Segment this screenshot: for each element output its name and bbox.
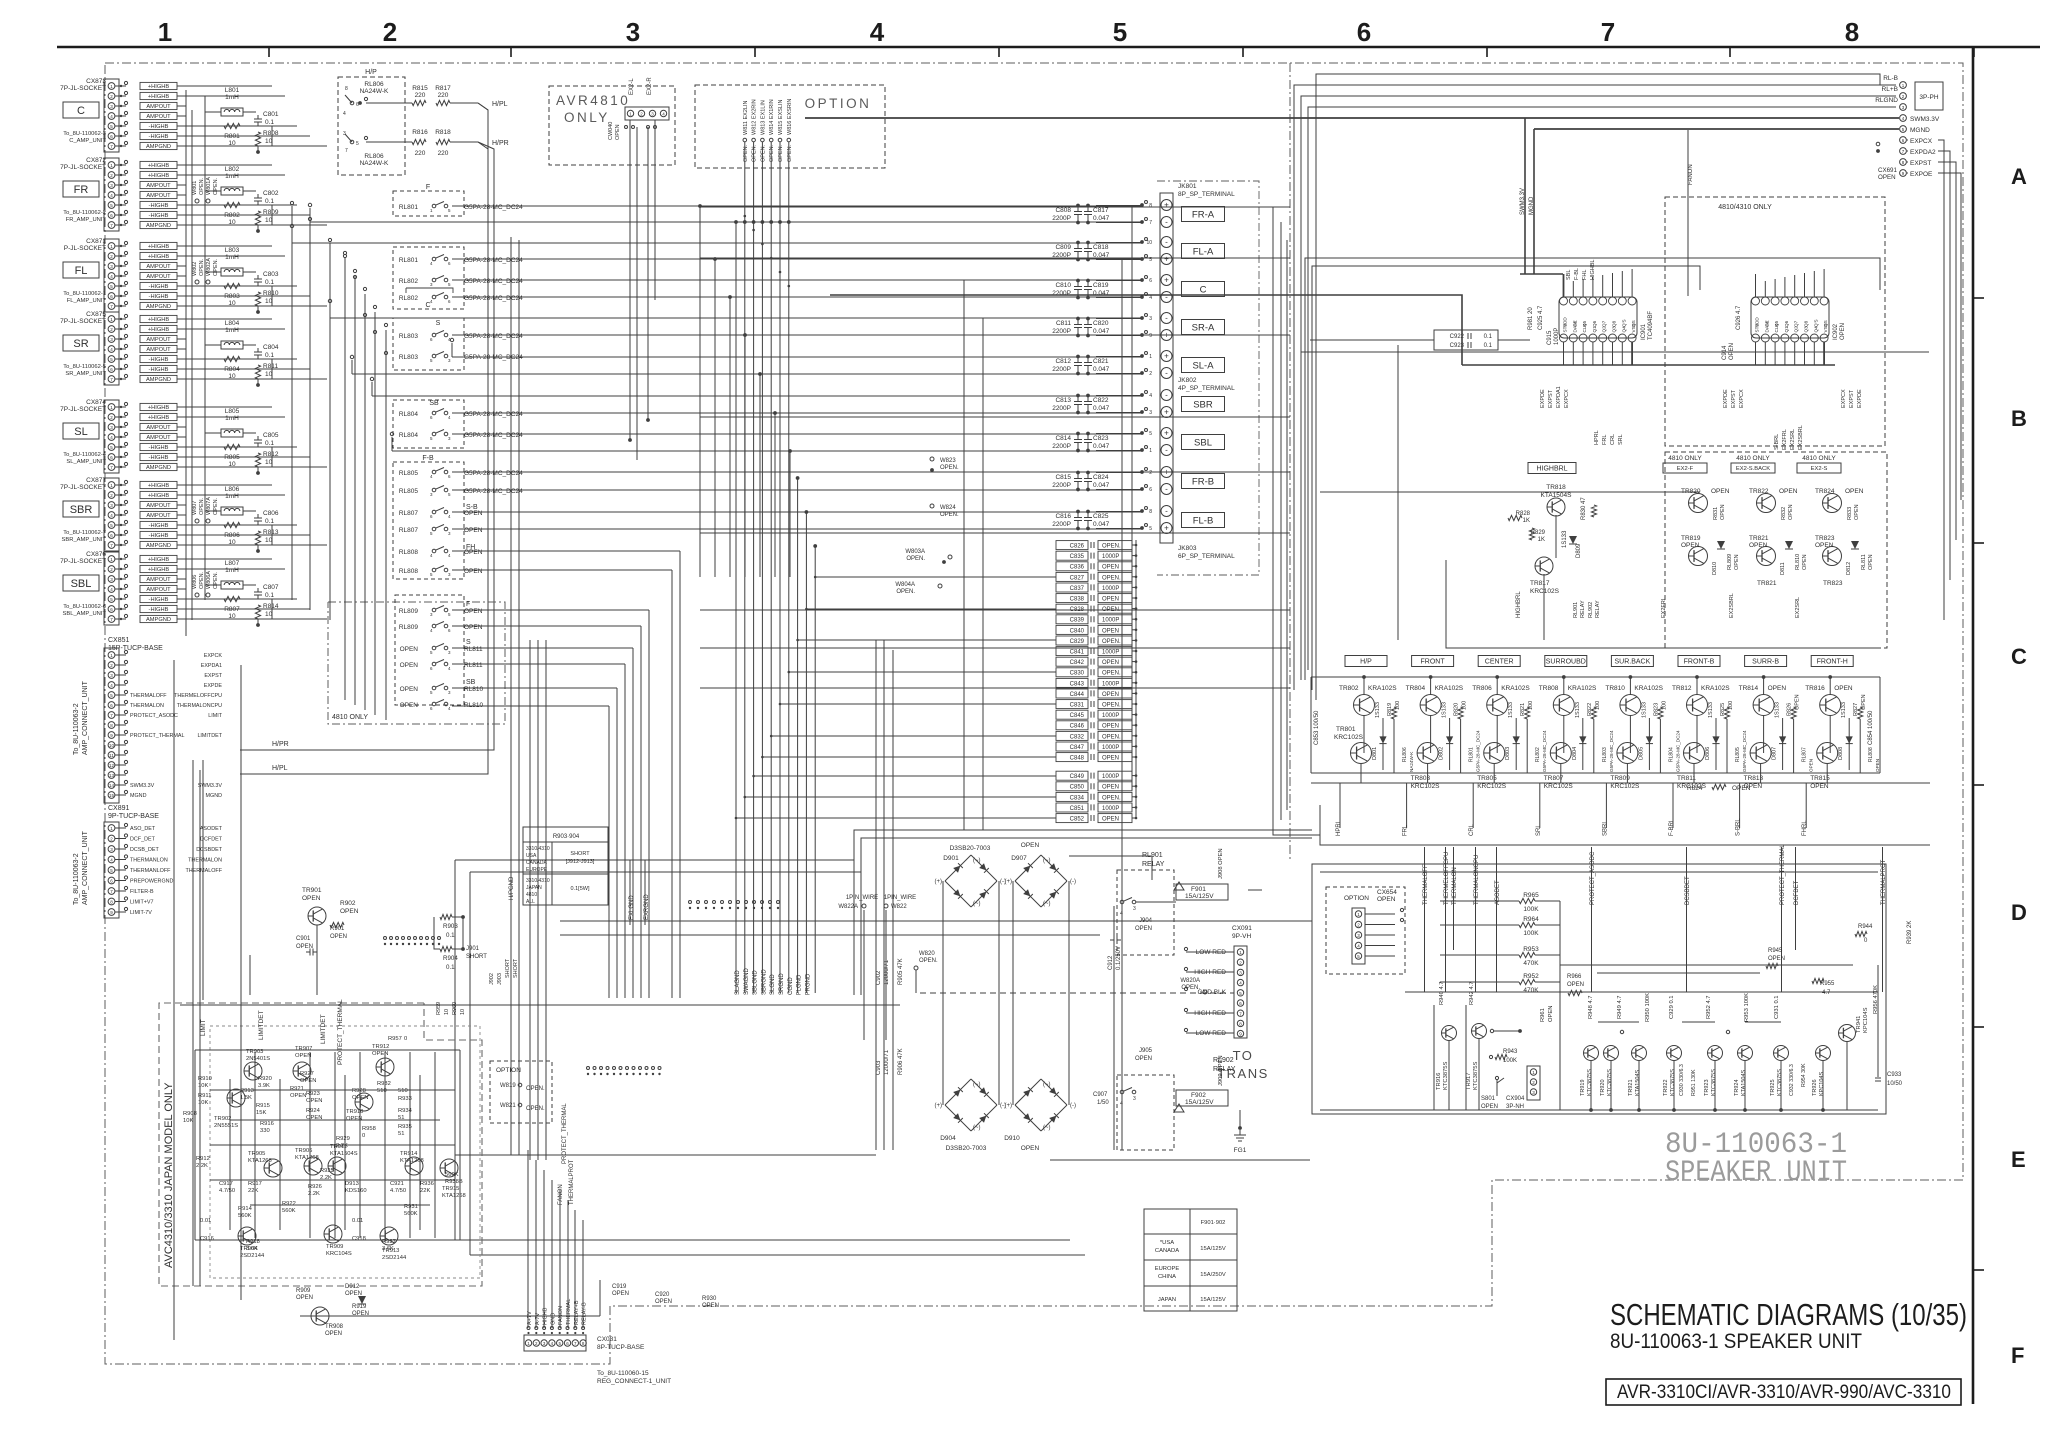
svg-text:OPEN.: OPEN. bbox=[1102, 795, 1121, 801]
svg-text:R960: R960 bbox=[452, 1002, 458, 1015]
transistor TR906 KTA1268 bbox=[304, 1157, 322, 1175]
svg-text:OPEN: OPEN bbox=[1102, 817, 1119, 823]
svg-text:AMPGND: AMPGND bbox=[146, 617, 171, 623]
svg-text:SWM3.3V: SWM3.3V bbox=[198, 783, 223, 789]
C912 label bbox=[1108, 936, 1122, 970]
svg-text:D912: D912 bbox=[345, 1284, 360, 1290]
svg-text:-HIGHB: -HIGHB bbox=[149, 367, 169, 373]
svg-text:RL802: RL802 bbox=[399, 278, 419, 285]
svg-text:OPEN: OPEN bbox=[400, 646, 419, 653]
svg-text:TR909: TR909 bbox=[326, 1244, 343, 1250]
W823 W824 open stubs bbox=[895, 457, 959, 595]
svg-text:1000P: 1000P bbox=[1102, 713, 1119, 719]
svg-text:KRC102S: KRC102S bbox=[1530, 588, 1560, 595]
svg-text:THERMALOFF: THERMALOFF bbox=[130, 693, 167, 699]
svg-text:+: + bbox=[1164, 429, 1169, 438]
capacitor pair C809/C818 (FL-A) bbox=[1052, 241, 1109, 262]
svg-text:EXPDA1: EXPDA1 bbox=[1556, 386, 1562, 408]
svg-text:THERMANLON: THERMANLON bbox=[130, 858, 168, 864]
svg-text:RL803: RL803 bbox=[399, 333, 419, 340]
svg-text:0.1: 0.1 bbox=[265, 119, 274, 126]
svg-text:5: 5 bbox=[1149, 431, 1152, 437]
svg-text:F901: F901 bbox=[1191, 886, 1206, 893]
svg-text:CX873: CX873 bbox=[86, 78, 106, 85]
speaker label box FL-B bbox=[1182, 513, 1225, 528]
svg-text:Q1: Q1 bbox=[1784, 326, 1789, 333]
svg-text:1K: 1K bbox=[1523, 518, 1530, 524]
svg-text:TR921: TR921 bbox=[1628, 1079, 1634, 1096]
svg-text:12: 12 bbox=[109, 763, 115, 768]
svg-text:SBR: SBR bbox=[1193, 399, 1213, 410]
svg-text:OPEN: OPEN bbox=[1845, 488, 1864, 495]
svg-text:To_8U-110062-5: To_8U-110062-5 bbox=[63, 364, 106, 370]
svg-text:AMPOUT: AMPOUT bbox=[146, 274, 171, 280]
svg-text:OPEN: OPEN bbox=[464, 568, 483, 575]
svg-text:C819: C819 bbox=[1093, 282, 1109, 289]
svg-text:0.1[5W]: 0.1[5W] bbox=[571, 886, 590, 892]
driver channel FRONT-B (TR812/TR811) bbox=[1669, 656, 1747, 837]
svg-text:-: - bbox=[1165, 369, 1168, 378]
svg-text:1mH: 1mH bbox=[225, 94, 239, 101]
svg-text:R932: R932 bbox=[377, 1081, 391, 1087]
svg-text:SWM3.3V: SWM3.3V bbox=[1910, 116, 1940, 123]
transistor TR901 bbox=[296, 887, 359, 956]
svg-text:FL: FL bbox=[75, 265, 88, 277]
R943 100K + switch S801 bbox=[1481, 1049, 1540, 1110]
svg-text:R981 20: R981 20 bbox=[1528, 307, 1534, 330]
protection wires bbox=[1320, 901, 1878, 1112]
svg-text:CX872: CX872 bbox=[86, 157, 106, 164]
svg-text:C850: C850 bbox=[1070, 785, 1085, 791]
svg-text:+: + bbox=[1164, 276, 1169, 285]
svg-text:R833: R833 bbox=[1847, 507, 1853, 520]
svg-text:DCSBDET: DCSBDET bbox=[1685, 876, 1691, 905]
svg-text:1mH: 1mH bbox=[225, 567, 239, 574]
svg-text:J908 OPEN: J908 OPEN bbox=[1218, 848, 1224, 879]
svg-text:G5PA-28-MC_DC24: G5PA-28-MC_DC24 bbox=[464, 257, 523, 264]
svg-text:10: 10 bbox=[460, 1009, 466, 1015]
svg-text:To_8U-110062-7: To_8U-110062-7 bbox=[63, 530, 106, 536]
svg-text:R902: R902 bbox=[340, 900, 356, 907]
svg-text:H/P: H/P bbox=[1360, 659, 1372, 666]
svg-text:To_8U-110060-15: To_8U-110060-15 bbox=[597, 1370, 649, 1377]
svg-text:OPEN.: OPEN. bbox=[1102, 639, 1121, 645]
svg-text:L805: L805 bbox=[225, 408, 240, 415]
svg-text:ONLY: ONLY bbox=[564, 110, 610, 125]
svg-text:FR: FR bbox=[74, 184, 89, 196]
svg-text:R830 47: R830 47 bbox=[1581, 497, 1587, 520]
svg-text:W819: W819 bbox=[500, 1083, 516, 1089]
svg-text:-: - bbox=[1165, 293, 1168, 302]
svg-text:C916: C916 bbox=[200, 1236, 214, 1242]
svg-text:OPEN: OPEN bbox=[1720, 504, 1726, 520]
svg-text:OPEN: OPEN bbox=[1840, 323, 1846, 340]
svg-text:KTC3875S: KTC3875S bbox=[1587, 1069, 1593, 1096]
long verticals right of JK (to bottom right block) bbox=[1273, 207, 1320, 835]
svg-text:AMPOUT: AMPOUT bbox=[146, 193, 171, 199]
svg-text:C802: C802 bbox=[263, 190, 279, 197]
svg-text:SBLGND: SBLGND bbox=[753, 970, 759, 995]
svg-text:W811 EX2LIN: W811 EX2LIN bbox=[743, 101, 749, 135]
svg-text:OPEN: OPEN bbox=[1749, 542, 1768, 549]
svg-text:OPEN: OPEN bbox=[1102, 565, 1119, 571]
mid-right big wire loop bbox=[830, 118, 1880, 690]
svg-text:SBL_AMP_UNIT: SBL_AMP_UNIT bbox=[63, 611, 107, 617]
svg-text:7P-JL-SOCKET: 7P-JL-SOCKET bbox=[60, 164, 106, 171]
svg-text:F-B: F-B bbox=[422, 455, 434, 462]
svg-text:AVC4310/3310 JAPAN MODEL ONLY: AVC4310/3310 JAPAN MODEL ONLY bbox=[163, 1082, 175, 1268]
svg-text:JK803: JK803 bbox=[1178, 545, 1197, 552]
filter L/R/C group for FR bbox=[205, 166, 279, 233]
svg-text:RL809: RL809 bbox=[1727, 554, 1733, 570]
svg-text:(~): (~) bbox=[1043, 1082, 1051, 1088]
svg-text:TR823: TR823 bbox=[1823, 580, 1843, 587]
svg-text:-HIGHB: -HIGHB bbox=[149, 533, 169, 539]
svg-text:-: - bbox=[1165, 391, 1168, 400]
svg-text:15A/125V: 15A/125V bbox=[1185, 1099, 1214, 1106]
svg-text:LIMIT+V7: LIMIT+V7 bbox=[130, 900, 154, 906]
svg-text:EX2FRL: EX2FRL bbox=[1661, 597, 1667, 618]
JAPAN MODEL ONLY dashed box bbox=[159, 1003, 482, 1286]
top-right nested wire loops bbox=[1294, 74, 1896, 700]
svg-text:AMPOUT: AMPOUT bbox=[146, 104, 171, 110]
svg-text:R964: R964 bbox=[1523, 916, 1539, 923]
svg-text:CX654: CX654 bbox=[1377, 889, 1397, 896]
svg-text:+HIGHB: +HIGHB bbox=[148, 405, 170, 411]
svg-text:G5PA-28-MC_DC24: G5PA-28-MC_DC24 bbox=[1476, 730, 1481, 772]
svg-text:OPEN.: OPEN. bbox=[940, 465, 959, 471]
jumper W807/W807A bbox=[192, 497, 219, 523]
R959 R960 labels bbox=[436, 1002, 466, 1015]
pin header dots row 1 bbox=[689, 901, 780, 910]
svg-text:CLK: CLK bbox=[1774, 323, 1779, 333]
svg-text:W806A: W806A bbox=[206, 571, 212, 589]
svg-text:(~): (~) bbox=[973, 858, 981, 864]
svg-text:0.047: 0.047 bbox=[1093, 405, 1110, 412]
svg-text:R927: R927 bbox=[300, 1071, 314, 1077]
svg-text:OPEN: OPEN bbox=[372, 1051, 388, 1057]
svg-text:OPTION: OPTION bbox=[496, 1067, 521, 1074]
svg-text:C810: C810 bbox=[1055, 282, 1071, 289]
svg-text:TR810: TR810 bbox=[1605, 685, 1625, 692]
svg-text:15: 15 bbox=[109, 793, 115, 798]
svg-text:R953: R953 bbox=[1523, 946, 1539, 953]
svg-text:C839: C839 bbox=[1070, 618, 1085, 624]
svg-text:0: 0 bbox=[362, 1133, 365, 1139]
svg-text:OPEN: OPEN bbox=[1567, 982, 1584, 988]
svg-text:D802: D802 bbox=[1439, 747, 1445, 760]
svg-text:W807: W807 bbox=[192, 501, 198, 515]
svg-text:C831: C831 bbox=[1070, 703, 1085, 709]
svg-text:To_8U-110062-3: To_8U-110062-3 bbox=[63, 131, 106, 137]
svg-text:FHL: FHL bbox=[1582, 270, 1588, 280]
svg-text:15A/125V: 15A/125V bbox=[1200, 1297, 1226, 1303]
svg-text:560K: 560K bbox=[282, 1208, 296, 1214]
svg-text:RL807: RL807 bbox=[399, 527, 419, 534]
svg-text:C: C bbox=[77, 105, 85, 117]
svg-text:0.1: 0.1 bbox=[265, 518, 274, 525]
svg-text:6: 6 bbox=[1149, 487, 1152, 493]
svg-text:AMPGND: AMPGND bbox=[146, 465, 171, 471]
svg-text:W804A: W804A bbox=[895, 582, 915, 588]
svg-text:OPEN: OPEN bbox=[1802, 554, 1808, 570]
J902 J903 SHORT labels bbox=[489, 958, 519, 985]
svg-text:1: 1 bbox=[1149, 448, 1152, 454]
svg-text:7P-JL-SOCKET: 7P-JL-SOCKET bbox=[60, 406, 106, 413]
svg-text:G5PA-28-MC_DC24: G5PA-28-MC_DC24 bbox=[1742, 730, 1747, 772]
svg-text:STB: STB bbox=[1563, 324, 1568, 333]
svg-text:OPEN: OPEN bbox=[1102, 597, 1119, 603]
svg-text:G5PA-28-MC_DC24: G5PA-28-MC_DC24 bbox=[464, 470, 523, 477]
svg-text:0: 0 bbox=[404, 1036, 407, 1042]
R824 OPEN bbox=[1687, 784, 1751, 792]
svg-text:10: 10 bbox=[265, 298, 273, 305]
svg-text:CX904: CX904 bbox=[1506, 1096, 1525, 1102]
svg-text:EX2-F: EX2-F bbox=[1677, 466, 1694, 472]
connector CX871 (FL) bbox=[63, 238, 186, 312]
bridge rectifier D901 bbox=[935, 845, 1007, 907]
svg-text:RL810: RL810 bbox=[1795, 554, 1801, 570]
svg-text:OPEN: OPEN bbox=[1135, 926, 1152, 932]
svg-text:(+): (+) bbox=[935, 1103, 943, 1109]
AVR4810 ONLY dashed box with CW040 connector bbox=[549, 77, 675, 165]
svg-text:OPEN.: OPEN. bbox=[752, 144, 758, 162]
svg-text:5: 5 bbox=[1113, 17, 1127, 47]
CX081 rotated pin labels bbox=[527, 1299, 588, 1325]
relay group C (RL801/RL802) bbox=[393, 247, 523, 309]
svg-text:R817: R817 bbox=[435, 85, 451, 92]
svg-text:R828: R828 bbox=[1516, 511, 1531, 517]
bold SWM3.3V MGND wires to pins 4-5 bbox=[805, 118, 1899, 129]
svg-text:-HIGHB: -HIGHB bbox=[149, 213, 169, 219]
svg-text:KTC3875S: KTC3875S bbox=[1670, 1069, 1676, 1096]
svg-text:RL806: RL806 bbox=[1402, 747, 1408, 762]
svg-text:+: + bbox=[1164, 201, 1169, 210]
svg-text:C808: C808 bbox=[1055, 207, 1071, 214]
R903-904 table bbox=[523, 827, 608, 905]
svg-text:KTC3875S: KTC3875S bbox=[1443, 1062, 1449, 1090]
svg-text:6: 6 bbox=[1149, 278, 1152, 284]
svg-text:EXPDE: EXPDE bbox=[1723, 389, 1729, 408]
svg-text:R832: R832 bbox=[1781, 507, 1787, 520]
svg-text:OPEN: OPEN bbox=[290, 1093, 306, 1099]
svg-text:8P-TUCP-BASE: 8P-TUCP-BASE bbox=[597, 1344, 645, 1351]
connector CX874 (SL) bbox=[60, 399, 186, 473]
svg-text:TO: TO bbox=[1233, 1048, 1254, 1063]
svg-text:HIGHBRL: HIGHBRL bbox=[1536, 466, 1567, 473]
protection transistor row TR919-TR926 bbox=[1580, 1007, 1869, 1096]
svg-text:OPEN.: OPEN. bbox=[213, 177, 219, 195]
svg-text:STB: STB bbox=[1755, 324, 1760, 333]
svg-text:FRONT: FRONT bbox=[1421, 659, 1446, 666]
svg-text:220: 220 bbox=[438, 92, 449, 99]
svg-text:RL807: RL807 bbox=[399, 510, 419, 517]
driver channel CENTER (TR806/TR805) bbox=[1469, 656, 1547, 837]
svg-text:D3SB20-7003: D3SB20-7003 bbox=[946, 1145, 987, 1152]
svg-text:3: 3 bbox=[1133, 906, 1136, 912]
svg-text:OPEN: OPEN bbox=[1809, 759, 1814, 772]
svg-text:OPEN: OPEN bbox=[400, 702, 419, 709]
svg-text:C_AMP_UNIT: C_AMP_UNIT bbox=[69, 138, 106, 144]
svg-text:To_8U-110062-6: To_8U-110062-6 bbox=[63, 604, 106, 610]
svg-text:1000P: 1000P bbox=[1102, 586, 1119, 592]
svg-text:FHRL: FHRL bbox=[1802, 820, 1808, 836]
svg-text:TR817: TR817 bbox=[1530, 580, 1550, 587]
svg-text:+HIGHB: +HIGHB bbox=[148, 567, 170, 573]
svg-text:TR912: TR912 bbox=[372, 1044, 389, 1050]
svg-text:8: 8 bbox=[345, 86, 348, 92]
svg-text:AMPGND: AMPGND bbox=[146, 543, 171, 549]
connector CX091 9P-VH bbox=[1184, 925, 1252, 1038]
speaker label box FR-B bbox=[1182, 474, 1225, 489]
svg-text:0.1: 0.1 bbox=[265, 440, 274, 447]
svg-text:-HIGHB: -HIGHB bbox=[149, 203, 169, 209]
transistor TR903 2N5401S bbox=[244, 1062, 262, 1080]
column numbers 1-8 bbox=[158, 17, 1859, 47]
transistor TR905 KTA1268 bbox=[264, 1159, 282, 1177]
svg-text:TR915: TR915 bbox=[442, 1186, 459, 1192]
rotated label To_8U-110063-2 AMP_CONNECT_UNIT (CX891) bbox=[73, 830, 89, 905]
svg-text:KRC102S: KRC102S bbox=[1610, 783, 1640, 790]
svg-text:SRGND: SRGND bbox=[779, 973, 785, 995]
svg-text:W802: W802 bbox=[192, 262, 198, 276]
W820A OPEN stub bbox=[1180, 978, 1207, 994]
EXLGND EXRGND rotated labels bbox=[629, 860, 650, 925]
C902 R905 labels bbox=[876, 958, 904, 985]
svg-text:-: - bbox=[1165, 314, 1168, 323]
svg-text:EX2SBRL: EX2SBRL bbox=[1729, 593, 1735, 618]
svg-text:OPEN: OPEN bbox=[464, 608, 483, 615]
svg-text:EXPST: EXPST bbox=[1910, 160, 1931, 167]
svg-text:TR907: TR907 bbox=[295, 1046, 312, 1052]
connector CX873 (C) bbox=[60, 78, 186, 152]
svg-text:H/PL: H/PL bbox=[272, 765, 288, 772]
svg-text:C835: C835 bbox=[1070, 554, 1085, 560]
svg-text:KRA102S: KRA102S bbox=[1568, 685, 1597, 692]
FANON rotated (right) bbox=[1688, 164, 1694, 185]
svg-text:C814: C814 bbox=[1055, 435, 1071, 442]
headphone relay RL806 box (H/P) bbox=[338, 69, 405, 175]
svg-text:510: 510 bbox=[398, 1088, 408, 1094]
svg-text:0.1: 0.1 bbox=[446, 964, 455, 971]
svg-text:LIMIT: LIMIT bbox=[200, 1019, 207, 1036]
svg-text:R906 47K: R906 47K bbox=[898, 1048, 904, 1075]
svg-text:TR821: TR821 bbox=[1749, 535, 1769, 542]
svg-text:Q2: Q2 bbox=[1794, 326, 1799, 333]
svg-text:AMP_CONNECT_UNIT: AMP_CONNECT_UNIT bbox=[82, 680, 89, 755]
driver channel SURR-B (TR814/TR813) bbox=[1736, 656, 1814, 837]
svg-text:SRL: SRL bbox=[1618, 434, 1624, 445]
svg-text:(~): (~) bbox=[973, 1082, 981, 1088]
svg-text:8: 8 bbox=[1845, 17, 1859, 47]
svg-text:RL804: RL804 bbox=[399, 411, 419, 418]
svg-text:Q'S: Q'S bbox=[1621, 319, 1626, 327]
svg-text:-HIGHB: -HIGHB bbox=[149, 134, 169, 140]
svg-text:NA24W-K: NA24W-K bbox=[360, 88, 389, 95]
svg-text:R944: R944 bbox=[1858, 924, 1873, 930]
transistor TR902 2N5551S bbox=[227, 1089, 245, 1107]
connector CX891 9P-TUCP-BASE bbox=[104, 805, 223, 918]
C853 rotated label bbox=[1314, 710, 1320, 745]
svg-text:S801: S801 bbox=[1481, 1096, 1496, 1102]
svg-text:4810 ONLY: 4810 ONLY bbox=[1802, 455, 1836, 462]
svg-text:C826: C826 bbox=[1070, 544, 1085, 550]
svg-text:OPEN.: OPEN. bbox=[1102, 734, 1121, 740]
svg-text:2SD2144: 2SD2144 bbox=[240, 1253, 265, 1259]
terminal strip JK801/JK802 body bbox=[1140, 193, 1173, 543]
svg-text:C821: C821 bbox=[1093, 358, 1109, 365]
svg-text:AMPOUT: AMPOUT bbox=[146, 513, 171, 519]
svg-text:+HIGHB: +HIGHB bbox=[148, 163, 170, 169]
relay group S (RL803) bbox=[393, 318, 523, 370]
speaker label box C bbox=[1182, 282, 1225, 297]
svg-text:OPEN: OPEN bbox=[1681, 542, 1700, 549]
svg-text:H/PL: H/PL bbox=[492, 101, 508, 108]
1PIN_WIRE W822A W822 bbox=[838, 895, 916, 910]
svg-text:10: 10 bbox=[444, 1009, 450, 1015]
svg-text:R950 100K: R950 100K bbox=[1645, 993, 1651, 1022]
svg-text:R923: R923 bbox=[306, 1091, 320, 1097]
wires from OPTION box down (merge into GND bus columns) bbox=[744, 215, 791, 288]
svg-text:L807: L807 bbox=[225, 560, 240, 567]
C907 label bbox=[1093, 1092, 1109, 1106]
svg-text:SL-A: SL-A bbox=[1192, 360, 1214, 371]
protection block outline bbox=[1312, 864, 1886, 1114]
svg-text:RL+B: RL+B bbox=[1882, 86, 1898, 93]
svg-text:EX2-S: EX2-S bbox=[1811, 466, 1828, 472]
svg-text:EX2SRL: EX2SRL bbox=[1795, 597, 1801, 618]
svg-text:C918: C918 bbox=[352, 1236, 366, 1242]
C903 R906 labels bbox=[876, 1048, 904, 1075]
svg-text:0.1: 0.1 bbox=[265, 198, 274, 205]
svg-text:C829: C829 bbox=[1070, 639, 1085, 645]
svg-text:-: - bbox=[1165, 507, 1168, 516]
svg-text:R916: R916 bbox=[260, 1121, 274, 1127]
svg-text:AMPOUT: AMPOUT bbox=[146, 114, 171, 120]
svg-text:D803: D803 bbox=[1505, 747, 1511, 760]
svg-text:EX2SRL: EX2SRL bbox=[1790, 429, 1796, 450]
svg-text:AMPGND: AMPGND bbox=[146, 304, 171, 310]
svg-text:4810 ONLY: 4810 ONLY bbox=[1736, 455, 1770, 462]
svg-text:Q2: Q2 bbox=[1602, 326, 1607, 333]
svg-text:9P-TUCP-BASE: 9P-TUCP-BASE bbox=[108, 813, 159, 820]
svg-text:OPEN: OPEN bbox=[1875, 759, 1880, 772]
transistor TR911 KTA1504S bbox=[328, 1157, 346, 1175]
svg-text:FLGND: FLGND bbox=[797, 974, 803, 995]
TO TRANS text bbox=[1217, 1048, 1269, 1081]
svg-text:6P_SP_TERMINAL: 6P_SP_TERMINAL bbox=[1178, 553, 1235, 560]
svg-text:C805: C805 bbox=[263, 432, 279, 439]
svg-text:S-BRL: S-BRL bbox=[1774, 434, 1780, 450]
svg-text:R903·904: R903·904 bbox=[553, 834, 580, 840]
svg-text:THERMALONCPU: THERMALONCPU bbox=[1474, 855, 1480, 905]
FG1 ground bbox=[1234, 1126, 1247, 1154]
svg-text:10: 10 bbox=[265, 138, 273, 145]
svg-text:C834: C834 bbox=[1070, 795, 1085, 801]
svg-text:22K: 22K bbox=[248, 1188, 258, 1194]
svg-text:OPEN: OPEN bbox=[464, 624, 483, 631]
svg-text:EUROPE: EUROPE bbox=[526, 867, 548, 873]
svg-text:KPC104S: KPC104S bbox=[1863, 1007, 1869, 1033]
svg-text:D808: D808 bbox=[1838, 747, 1844, 760]
svg-text:4810 ONLY: 4810 ONLY bbox=[1668, 455, 1702, 462]
svg-text:SR-A: SR-A bbox=[1192, 322, 1215, 333]
svg-text:KRA102S: KRA102S bbox=[1368, 685, 1397, 692]
H/PR H/PL net labels bbox=[240, 741, 289, 774]
svg-text:D806: D806 bbox=[1705, 747, 1711, 760]
H/PL H/PR long wires to CX851 bbox=[268, 103, 494, 774]
svg-text:ASO_DET: ASO_DET bbox=[130, 826, 156, 832]
